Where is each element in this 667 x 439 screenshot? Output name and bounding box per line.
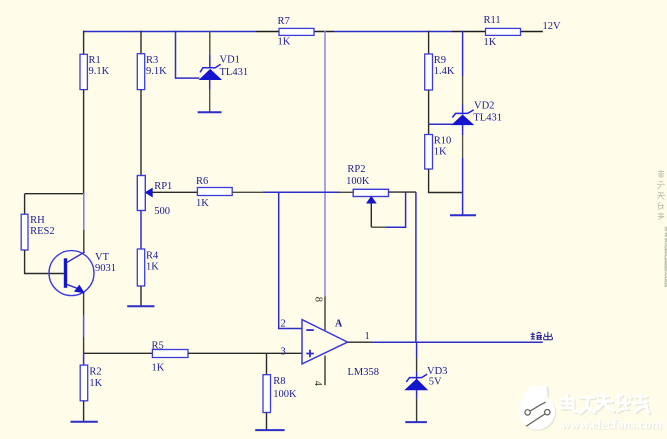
svg-text:100K: 100K: [273, 389, 297, 400]
svg-text:RES2: RES2: [30, 226, 55, 237]
logo text 电子发烧友 (calligraphic, white): [562, 395, 650, 414]
resistor R10: [425, 135, 433, 170]
wire VD3 anode to ground: [416, 390, 418, 399]
resistor R3: [137, 54, 144, 90]
resistor R5: [152, 350, 188, 358]
wire R1 bottom to RH junction: [83, 90, 85, 194]
svg-text:100K: 100K: [346, 176, 370, 187]
wire R9 stem from rail: [428, 31, 430, 54]
wire inverting input vertical: [279, 192, 302, 328]
svg-text:R6: R6: [196, 176, 208, 187]
wire RP1 bottom to R4: [140, 211, 142, 250]
svg-text:www.elecfans.com: www.elecfans.com: [561, 417, 662, 432]
diode VD2 TL431: [452, 110, 473, 125]
svg-text:RP1: RP1: [154, 181, 172, 192]
wire VD2 cathode stem from rail: [462, 31, 464, 76]
wire RH bottom to base: [25, 250, 64, 274]
wire top rail dark segment into R7: [256, 31, 279, 33]
wire RP2 loop: [371, 226, 386, 228]
svg-text:1K: 1K: [152, 363, 165, 374]
wire R6 to RP2: [232, 191, 263, 193]
ground VD2: [450, 214, 476, 216]
wire emitter down: [83, 293, 85, 315]
resistor RH: [24, 194, 26, 215]
diode VD1 TL431: [200, 64, 221, 79]
watermark vertical text right edge: [519, 171, 667, 433]
svg-text:5V: 5V: [429, 377, 442, 388]
svg-text:TL431: TL431: [220, 67, 249, 78]
wire VD1 cathode stem: [209, 31, 211, 55]
wire VD2 reference line: [429, 123, 453, 125]
potentiometer RP2: [353, 189, 388, 196]
potentiometer RP1: [137, 176, 145, 211]
ground R4: [127, 305, 154, 307]
svg-text:R4: R4: [146, 251, 159, 262]
svg-text:1.4K: 1.4K: [434, 66, 455, 77]
wire R8 bottom to ground: [266, 413, 268, 431]
wire VD1 anode to ground: [209, 80, 211, 90]
resistor R11: [486, 28, 521, 35]
pin 4 stem: [324, 356, 326, 386]
wire VD1 reference drop: [176, 31, 200, 78]
svg-text:R1: R1: [89, 55, 101, 66]
wire collector up: [83, 230, 85, 252]
wire RP2 right end: [389, 191, 416, 193]
wire VD2 anode to ground: [462, 125, 464, 135]
wire R2 bottom to ground: [83, 401, 85, 422]
svg-text:VT: VT: [95, 252, 110, 263]
svg-text:RH: RH: [30, 215, 45, 226]
svg-text:8: 8: [312, 297, 323, 302]
resistor R9: [425, 54, 433, 90]
ground VD3: [405, 421, 427, 423]
svg-text:www.elecfans.com: www.elecfans.com: [663, 226, 667, 288]
wire R3 bottom to RP1: [140, 90, 142, 176]
wire R4 bottom to ground: [140, 286, 142, 306]
wire R5 line left: [84, 352, 153, 354]
wire R9 bottom to R10: [428, 90, 430, 135]
resistor R6: [197, 188, 232, 196]
wire R1 stem from rail: [83, 31, 85, 55]
svg-text:1K: 1K: [89, 378, 102, 389]
svg-text:1: 1: [365, 331, 370, 342]
wire top rail left blue segment: [83, 31, 256, 33]
svg-text:R2: R2: [89, 367, 101, 378]
node output label 输出: [531, 332, 553, 340]
svg-text:R5: R5: [152, 341, 164, 352]
svg-text:1K: 1K: [196, 198, 209, 209]
svg-text:R11: R11: [484, 15, 501, 26]
transistor VT 9031: [49, 251, 94, 296]
diode VD3 zener 5V: [416, 342, 418, 358]
svg-text:TL431: TL431: [473, 113, 502, 124]
logo elecfans bottom right: [519, 384, 557, 431]
wire RP2 to output node vertical: [415, 192, 417, 342]
svg-text:VD2: VD2: [474, 101, 494, 112]
resistor R8: [266, 353, 268, 374]
wire R10 bottom to VD2 anode line: [429, 169, 463, 193]
op-amp U1 LM358: [302, 320, 348, 364]
wire top rail dark segment after R7: [314, 31, 334, 33]
wire pin8 long vertical from rail: [324, 31, 326, 297]
ground VD1: [198, 111, 222, 113]
svg-text:1K: 1K: [484, 37, 497, 48]
wire R3 stem from rail: [140, 31, 142, 54]
wire RH top: [25, 193, 84, 195]
svg-text:1K: 1K: [278, 37, 291, 48]
svg-text:RP2: RP2: [347, 164, 365, 175]
svg-text:LM358: LM358: [348, 367, 380, 378]
svg-text:A: A: [335, 319, 343, 330]
wire rail to R11: [452, 31, 486, 33]
wire op-amp output: [348, 341, 371, 343]
svg-text:500: 500: [154, 206, 170, 217]
resistor R4: [137, 249, 144, 286]
svg-text:VD1: VD1: [220, 55, 240, 66]
wire RP2 wiper stem: [370, 203, 372, 227]
svg-text:9031: 9031: [95, 263, 116, 274]
svg-text:2: 2: [281, 319, 286, 330]
svg-text:R10: R10: [434, 136, 452, 147]
wire top rail middle blue segment: [334, 31, 452, 33]
svg-text:1K: 1K: [434, 147, 447, 158]
ground R2: [71, 421, 98, 423]
traces: [530, 402, 545, 411]
svg-text:R7: R7: [278, 16, 290, 27]
svg-text:R9: R9: [434, 55, 446, 66]
svg-text:R8: R8: [273, 376, 285, 387]
wire RP1 wiper to R6: [152, 191, 197, 193]
svg-text:12V: 12V: [543, 21, 562, 32]
svg-text:4: 4: [312, 381, 323, 387]
svg-text:9.1K: 9.1K: [146, 66, 167, 77]
svg-text:3: 3: [281, 347, 286, 358]
wire R5 to pin 3: [188, 352, 302, 354]
notch sliver: [544, 393, 547, 402]
ground R8: [255, 429, 284, 431]
resistor R1: [80, 54, 87, 89]
svg-text:9.1K: 9.1K: [89, 66, 110, 77]
svg-text:VD3: VD3: [427, 366, 447, 377]
wire R11 to 12V terminal: [520, 31, 543, 33]
resistor R2: [83, 353, 85, 365]
svg-text:R3: R3: [146, 55, 158, 66]
resistor R7: [279, 28, 314, 35]
svg-text:1K: 1K: [146, 262, 159, 273]
